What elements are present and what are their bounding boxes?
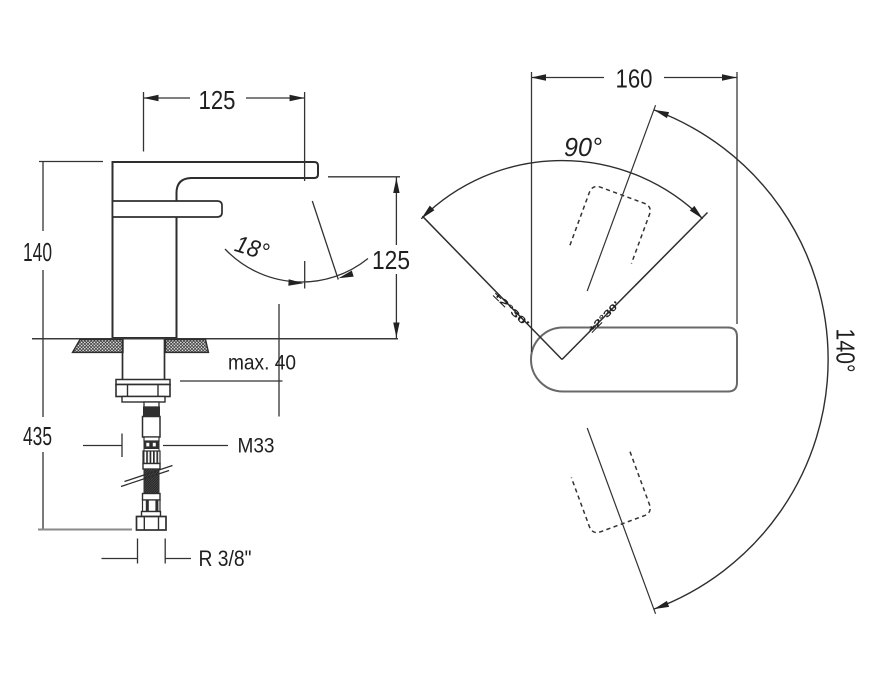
barred piece bbox=[143, 500, 161, 512]
svg-text:435: 435 bbox=[23, 421, 52, 451]
arrow right bbox=[290, 95, 305, 101]
countertop hatched section left bbox=[73, 340, 124, 353]
extension line right of 160 bbox=[736, 72, 738, 324]
arc arrow at vertical line bbox=[288, 279, 303, 285]
svg-text:125: 125 bbox=[199, 85, 236, 115]
arrow down bbox=[393, 323, 399, 338]
svg-text:140°: 140° bbox=[831, 329, 861, 373]
svg-text:M33: M33 bbox=[238, 435, 275, 458]
lower washer bbox=[122, 397, 165, 403]
140 degree arc bbox=[654, 110, 828, 609]
svg-text:±2°30': ±2°30' bbox=[490, 290, 531, 330]
arrow up bbox=[393, 178, 399, 193]
svg-text:125: 125 bbox=[372, 245, 410, 275]
dimension 125 top: extension line right bbox=[304, 92, 306, 181]
white ring bbox=[143, 464, 160, 470]
dark band bbox=[144, 441, 159, 449]
90 degree arc bbox=[421, 161, 702, 219]
18 degree arc bbox=[225, 249, 368, 282]
faucet body side view bbox=[113, 162, 319, 338]
upper rotated spout dashed outline and centerline bbox=[557, 94, 685, 302]
bottom extension line bbox=[38, 529, 132, 531]
dimension 125 right: extension at spout underside bbox=[328, 176, 400, 178]
dimension 140/435: vertical dim line bbox=[42, 162, 44, 232]
svg-text:max. 40: max. 40 bbox=[228, 352, 296, 375]
dimension 125 top: extension line left bbox=[143, 92, 145, 152]
braided hose section bbox=[144, 469, 159, 494]
arc arrow at stream line bbox=[339, 271, 354, 279]
arrow right bbox=[722, 74, 737, 80]
white gap ring bbox=[144, 449, 159, 452]
vertical reference below outlet bbox=[304, 261, 306, 289]
break line 1 bbox=[121, 471, 169, 487]
threaded dark band bbox=[144, 407, 160, 417]
left 45 line bbox=[422, 216, 562, 359]
arrow left bbox=[531, 74, 546, 80]
arrow 140 top end bbox=[654, 110, 669, 118]
spout top view rounded rect bbox=[531, 328, 737, 392]
countertop hatched section right bbox=[166, 340, 209, 353]
mounting nut bbox=[116, 385, 170, 397]
white cylinder bbox=[143, 417, 161, 438]
svg-text:140: 140 bbox=[23, 237, 52, 267]
lower rotated spout dashed outline and centerline bbox=[557, 417, 685, 625]
break line 2 bbox=[125, 466, 173, 482]
dim line vertical bbox=[395, 177, 397, 245]
arrow left bbox=[144, 95, 159, 101]
striped section bbox=[143, 451, 160, 464]
washer plate bbox=[116, 380, 170, 385]
arrow 140 bottom end bbox=[654, 601, 669, 609]
M33 annotation bbox=[121, 434, 123, 458]
arrow 90 right end bbox=[690, 206, 703, 219]
dimension 125 top: dim line bbox=[144, 97, 191, 99]
R 3/8 dimension bbox=[137, 539, 139, 564]
extension line left of 160 bbox=[531, 72, 533, 352]
white cylinder lower bbox=[143, 494, 161, 501]
countertop line bbox=[32, 338, 398, 340]
small white joint bbox=[144, 437, 159, 441]
shank below counter bbox=[123, 339, 165, 380]
handle lever bbox=[113, 201, 223, 217]
dimension 160: dim line bbox=[531, 77, 604, 79]
svg-text:±2°30': ±2°30' bbox=[586, 299, 622, 335]
right 45 line bbox=[562, 213, 708, 360]
max. 40 annotation bbox=[180, 380, 283, 382]
svg-text:90°: 90° bbox=[564, 132, 602, 162]
svg-text:R 3/8": R 3/8" bbox=[199, 546, 252, 571]
arrow 90 left end bbox=[421, 206, 434, 219]
collar bbox=[142, 512, 161, 517]
top extension line bbox=[39, 161, 103, 163]
hex nut R3/8 bbox=[137, 517, 167, 531]
rod top white piece bbox=[144, 402, 159, 407]
water stream line bbox=[312, 201, 338, 280]
svg-text:160: 160 bbox=[616, 64, 653, 94]
